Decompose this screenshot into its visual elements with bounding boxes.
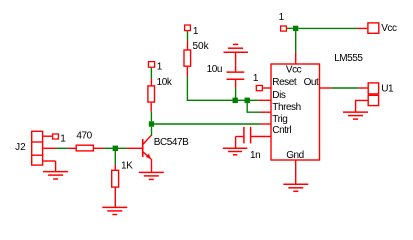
transistor Q1 BC547B bbox=[127, 135, 152, 172]
10k top pad bbox=[148, 62, 154, 68]
svg-text:10u: 10u bbox=[207, 64, 222, 75]
wire pad to 50k bbox=[187, 31, 189, 41]
wire junction down to 555 Vcc pin bbox=[295, 31, 297, 52]
svg-text:Vcc: Vcc bbox=[286, 64, 302, 75]
resistor 1K bbox=[112, 165, 119, 208]
capacitor 1n bbox=[236, 127, 251, 148]
svg-text:Out: Out bbox=[304, 77, 319, 88]
svg-text:10k: 10k bbox=[157, 77, 173, 88]
node junction (thresh branch) bbox=[245, 98, 250, 103]
svg-text:1: 1 bbox=[157, 61, 163, 72]
node junction (10u / dis net) bbox=[233, 98, 238, 103]
Vcc terminal box bbox=[368, 23, 379, 33]
wire node to Q1 base bbox=[118, 147, 127, 149]
svg-text:1: 1 bbox=[279, 12, 285, 23]
reset pad bbox=[256, 86, 262, 91]
wire node down to R 1K bbox=[114, 151, 116, 165]
capacitor 10u bbox=[227, 52, 245, 88]
connector J2 bbox=[31, 131, 56, 171]
svg-text:Gnd: Gnd bbox=[286, 150, 304, 161]
svg-text:1K: 1K bbox=[121, 160, 133, 171]
wire pad to 10k bbox=[150, 68, 152, 79]
svg-text:Vcc: Vcc bbox=[381, 23, 397, 34]
svg-text:1n: 1n bbox=[250, 150, 260, 161]
svg-text:1: 1 bbox=[60, 133, 66, 144]
wire collector node down bbox=[151, 127, 153, 136]
wire J2 pin 2 to R 470 bbox=[56, 147, 67, 149]
wire 10u to dis net node bbox=[235, 88, 237, 100]
svg-text:BC547B: BC547B bbox=[154, 137, 189, 148]
svg-text:LM555: LM555 bbox=[334, 53, 363, 64]
svg-text:J2: J2 bbox=[15, 142, 26, 153]
J2 pin 1 pad bbox=[53, 134, 59, 139]
wire 50k down and right (dis net) bbox=[187, 77, 258, 101]
svg-text:1: 1 bbox=[193, 26, 199, 37]
ground (Q1 emitter) bbox=[139, 172, 164, 179]
resistor 50k bbox=[184, 41, 191, 77]
wire trig net bbox=[154, 123, 260, 125]
Vcc node pad bbox=[281, 26, 287, 31]
ground (J2 pin 3) bbox=[43, 172, 68, 179]
node junction (Vcc net) bbox=[293, 26, 298, 31]
wire R470 to base node bbox=[104, 147, 113, 149]
svg-text:Reset: Reset bbox=[272, 77, 297, 88]
power bars (10u top terminal) bbox=[224, 44, 249, 52]
svg-text:50k: 50k bbox=[193, 41, 210, 52]
Q1 emitter arrow bbox=[146, 154, 151, 160]
wire 10k to trig node bbox=[150, 112, 152, 122]
wire pad to junction bbox=[287, 27, 293, 29]
wire junction to Vcc terminal bbox=[298, 27, 357, 29]
resistor 10k bbox=[148, 79, 155, 112]
svg-text:470: 470 bbox=[76, 131, 92, 142]
ground (1K) bbox=[102, 207, 127, 214]
wire Out to U1 bbox=[332, 87, 359, 89]
wire thresh branch bbox=[247, 103, 260, 112]
svg-text:Dis: Dis bbox=[272, 90, 286, 101]
555 pin stubs bbox=[251, 53, 332, 185]
ground (555 Gnd) bbox=[283, 184, 308, 191]
wire red lead into U1 bbox=[358, 87, 367, 89]
node junction (collector / trig) bbox=[149, 121, 154, 126]
50k top pad bbox=[185, 25, 191, 31]
wire red lead into Vcc terminal bbox=[357, 27, 367, 29]
svg-text:U1: U1 bbox=[381, 83, 394, 94]
connector U1 bbox=[356, 83, 379, 112]
resistor 470 bbox=[67, 145, 103, 151]
svg-text:Thresh: Thresh bbox=[272, 102, 300, 113]
IC U2 LM555 body bbox=[271, 64, 320, 160]
svg-text:Trig: Trig bbox=[272, 114, 287, 125]
svg-text:1: 1 bbox=[253, 73, 259, 84]
node junction (base node) bbox=[113, 146, 118, 151]
ground (1n) bbox=[223, 148, 248, 155]
svg-text:Cntrl: Cntrl bbox=[272, 125, 291, 136]
ground (U1) bbox=[343, 112, 368, 119]
